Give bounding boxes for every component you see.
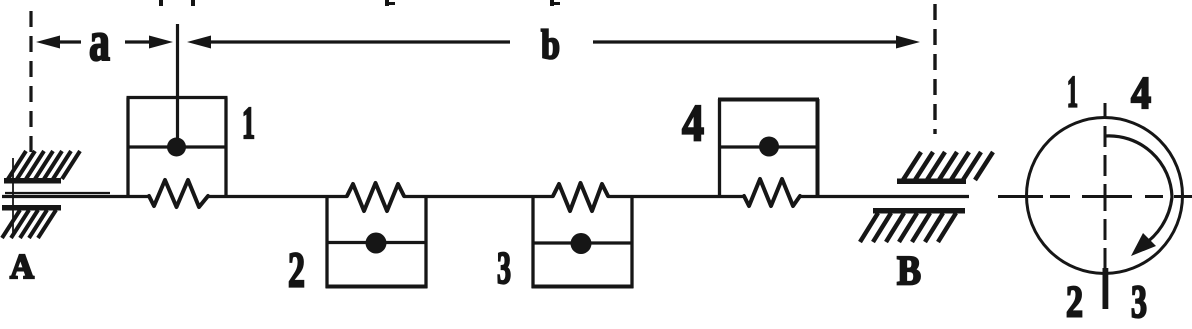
svg-text:a: a (89, 11, 110, 73)
mass dot 4 (759, 137, 779, 157)
mass dot 2 (366, 233, 387, 254)
vertical centerline of circle (1104, 103, 1107, 268)
caption fragment top (159, 0, 560, 6)
support B lower hatch (860, 208, 965, 242)
svg-text:1: 1 (242, 97, 255, 148)
mass block 4 box (718, 99, 819, 196)
dimension b left arrow (187, 36, 510, 49)
horizontal centerline of circle (998, 195, 1192, 198)
mass dot 1 (167, 138, 186, 157)
spring 4 (744, 179, 800, 206)
dashed reference line A (left) (29, 11, 32, 156)
support B upper hatch (897, 152, 993, 184)
svg-text:2: 2 (1066, 277, 1083, 326)
svg-text:b: b (541, 21, 560, 67)
spring 3 (553, 183, 608, 211)
dashed reference line B (right) (933, 4, 936, 134)
dimension a left arrow (36, 36, 81, 49)
rotation arrow arc (1105, 136, 1172, 247)
mass block 2 box (326, 196, 428, 288)
svg-text:3: 3 (497, 242, 511, 293)
svg-text:B: B (897, 247, 921, 293)
svg-text:A: A (10, 247, 35, 286)
dimension a right arrow (125, 36, 173, 49)
svg-text:3: 3 (1131, 276, 1147, 328)
mass dot 3 (571, 233, 592, 254)
angular position circle (1027, 118, 1183, 274)
support A lower hatch (2, 205, 61, 238)
mass block 1 box (127, 98, 228, 197)
support A upper hatch (4, 151, 80, 184)
svg-text:2: 2 (288, 241, 305, 297)
centerline of block 1 (176, 24, 179, 150)
support A wall edge (12, 158, 14, 235)
rotation arrowhead (1131, 233, 1156, 256)
spring 1 (149, 180, 208, 207)
dimension b right arrow (593, 36, 920, 49)
bearing line left (5, 192, 110, 194)
svg-text:4: 4 (1131, 67, 1151, 118)
svg-text:4: 4 (682, 95, 704, 152)
shaft (2, 195, 969, 198)
svg-text:1: 1 (1067, 67, 1078, 116)
spring 2 (347, 183, 404, 211)
mass block 3 box (532, 196, 634, 288)
